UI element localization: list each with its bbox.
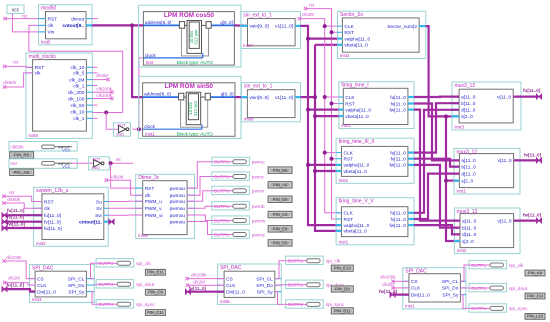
- block SPI_DAC u2: [218, 264, 282, 304]
- svg-text:fw[11..0]: fw[11..0]: [523, 213, 542, 218]
- wire Dtime pwmout1: [187, 162, 212, 188]
- svg-text:pwmou: pwmou: [170, 214, 186, 219]
- block sin_ext_to_1 upper: [241, 12, 301, 49]
- svg-text:inst5: inst5: [41, 39, 51, 44]
- svg-text:Sv: Sv: [96, 206, 102, 212]
- wire spi1 dout out: [94, 283, 96, 286]
- pin assignment box PIN_D6: [268, 196, 292, 203]
- wire fw bus to spi3 Din: [393, 294, 409, 296]
- node fw bus label spi3: [379, 289, 398, 297]
- wire Dtime pwmout2: [187, 177, 212, 196]
- wire fu_V to mux1 d: [414, 110, 459, 213]
- svg-text:valpha[11..0: valpha[11..0: [345, 107, 371, 113]
- svg-text:spi_dout: spi_dout: [136, 282, 155, 288]
- svg-text:clk_10: clk_10: [71, 65, 85, 71]
- svg-text:vbeta[11..0: vbeta[11..0: [345, 114, 369, 120]
- node rst label at svpwm: [2, 190, 15, 198]
- node clk2M label spi2: [186, 279, 205, 287]
- svg-text:rst: rst: [309, 2, 315, 7]
- wire valpha tap firing III: [308, 164, 336, 166]
- wire Dtime pwmout4: [187, 206, 212, 208]
- svg-text:pwmou: pwmou: [170, 194, 186, 199]
- svg-text:fv[11..0: fv[11..0: [391, 217, 407, 223]
- svg-text:spi_dout: spi_dout: [509, 286, 528, 292]
- svg-text:spi_clk: spi_clk: [509, 263, 524, 269]
- power symbol VCC: [7, 5, 24, 14]
- svg-text:RST: RST: [344, 217, 354, 223]
- wire vbeta vertical bus: [315, 45, 342, 231]
- svg-text:d[11..0: d[11..0: [461, 171, 476, 177]
- svg-text:mux3_12: mux3_12: [457, 209, 478, 215]
- svg-text:inst1: inst1: [339, 178, 349, 183]
- svg-text:v1[11..0]: v1[11..0]: [275, 24, 293, 30]
- wire Sv to PWM_v: [108, 207, 143, 209]
- wire clk2M to Dtime clk: [106, 180, 142, 195]
- svg-text:inst2: inst2: [340, 53, 350, 58]
- wire rst tap firing III: [332, 158, 337, 160]
- wire fu_III to mux1 b: [414, 103, 459, 152]
- svg-text:fw[11..0: fw[11..0: [389, 223, 406, 229]
- svg-text:s[2..0: s[2..0: [462, 239, 474, 245]
- svg-text:PIN_C6: PIN_C6: [273, 212, 288, 217]
- block Sector_Sx: [338, 11, 426, 58]
- svg-text:a[11..0: a[11..0: [462, 218, 477, 224]
- pin assignment box PIN_D8: [268, 240, 292, 247]
- svg-text:PIN_A6: PIN_A6: [273, 183, 288, 188]
- svg-text:SPI_Sy: SPI_Sy: [68, 289, 85, 295]
- output pin pwm3: [212, 186, 265, 194]
- block mux3_12 fu: [452, 82, 521, 130]
- svg-text:vsin[9..0]: vsin[9..0]: [250, 24, 269, 30]
- wire fu_I to mux1 a: [414, 95, 459, 98]
- svg-text:clk_1: clk_1: [73, 116, 85, 122]
- wire s tap mux2: [446, 180, 459, 182]
- svg-text:s[2..0: s[2..0: [461, 178, 473, 184]
- wire svpwm cntout stub: [108, 219, 114, 224]
- output pin pwm1: [212, 157, 265, 165]
- svg-text:fw[11..0: fw[11..0: [389, 163, 406, 169]
- svg-text:Sector_num[2: Sector_num[2: [387, 24, 417, 30]
- wire clk2M vertical net: [300, 19, 342, 213]
- svg-text:b[11..0: b[11..0: [461, 101, 476, 107]
- svg-text:PIN_E6: PIN_E6: [273, 227, 288, 232]
- block Dtime_3c: [136, 174, 195, 238]
- svg-text:clk50k: clk50k: [11, 145, 25, 150]
- wire vbeta top elbow to Sector: [315, 44, 338, 46]
- wire Sector_num bus to mux select: [426, 26, 460, 241]
- svg-text:cntout[9..: cntout[9..: [62, 23, 84, 29]
- svg-text:pwmw: pwmw: [252, 219, 266, 224]
- wire clk_10 long output: [92, 112, 122, 114]
- svg-text:inst9: inst9: [138, 233, 148, 238]
- svg-text:CLK: CLK: [345, 95, 355, 101]
- wire fu bus into svpwm: [5, 214, 43, 216]
- pin assignment box PIN_J14: [525, 293, 545, 299]
- svg-text:fu[11..0: fu[11..0: [390, 150, 406, 156]
- wire vcc to mod50 Vin: [13, 14, 46, 32]
- svg-text:inst1: inst1: [117, 132, 125, 136]
- node fv bus label spi2: [185, 286, 206, 294]
- node clk100k label spi1: [2, 255, 22, 263]
- output pin spi2 dout: [286, 280, 345, 288]
- svg-text:fw[11..0]: fw[11..0]: [7, 221, 26, 226]
- node clk2M label spi3: [382, 282, 395, 289]
- wire spi1 clk out: [91, 278, 95, 280]
- pin assignment box PIN_E6: [268, 226, 292, 233]
- wire rst to mod50 RST: [5, 18, 46, 20]
- svg-text:multi_clocks: multi_clocks: [29, 54, 57, 60]
- svg-text:inst3: inst3: [32, 297, 42, 302]
- output pin spi1 dout: [96, 280, 155, 288]
- svg-text:PIN_E13: PIN_E13: [334, 266, 351, 271]
- wire rstr to NOT2: [72, 162, 94, 164]
- svg-text:Block type: AUTO: Block type: AUTO: [177, 132, 214, 137]
- svg-text:a[11..0: a[11..0: [461, 94, 476, 100]
- svg-text:Dtime_3c: Dtime_3c: [138, 175, 160, 181]
- svg-text:firing_time_III_II: firing_time_III_II: [339, 139, 375, 145]
- svg-text:Vin: Vin: [48, 30, 55, 36]
- output pin spi2 sync: [286, 300, 345, 308]
- wire Dtime pwmout5: [187, 215, 212, 221]
- svg-text:PWM_w: PWM_w: [145, 213, 163, 219]
- junction ROM clock: [137, 127, 141, 131]
- svg-text:clk200k: clk200k: [96, 87, 112, 92]
- svg-text:fu[11..0: fu[11..0: [390, 95, 406, 101]
- wire vbeta tap firing III: [315, 170, 336, 172]
- svg-text:clk100k: clk100k: [380, 274, 396, 279]
- svg-text:fw[11..0: fw[11..0: [389, 107, 406, 113]
- svg-text:inst1: inst1: [341, 123, 351, 128]
- svg-text:Sw: Sw: [95, 213, 102, 219]
- wire mux1 output fu: [513, 88, 541, 99]
- pin assignment box PIN_E13: [331, 265, 353, 271]
- svg-text:inst3: inst3: [455, 125, 465, 130]
- svg-text:inst2: inst2: [92, 166, 100, 170]
- svg-text:CLK: CLK: [37, 283, 47, 289]
- svg-text:clk: clk: [48, 23, 54, 29]
- svg-text:s[2..0: s[2..0: [461, 114, 473, 120]
- svg-text:SPI_Do: SPI_Do: [256, 283, 273, 289]
- svg-text:fv[11..0: fv[11..0: [391, 101, 407, 107]
- svg-text:pwmou: pwmou: [170, 207, 186, 212]
- svg-text:Sector_Sx: Sector_Sx: [340, 12, 364, 18]
- wire clk100k to spi2 CS: [187, 278, 224, 280]
- svg-text:PIN_D8: PIN_D8: [273, 241, 288, 246]
- svg-text:PIN_C9: PIN_C9: [148, 290, 163, 295]
- svg-text:Block type: AUTO: Block type: AUTO: [177, 60, 214, 65]
- wire vbeta tap firing I: [315, 115, 339, 117]
- svg-text:RST: RST: [344, 157, 354, 163]
- svg-text:spi_clk: spi_clk: [326, 259, 341, 265]
- wire fw bus into svpwm: [5, 227, 43, 229]
- svg-text:clk: clk: [44, 206, 50, 212]
- pin assignment box PIN_K9: [525, 270, 545, 276]
- svg-text:b[11..0: b[11..0: [462, 225, 477, 231]
- svg-text:clk2M: clk2M: [382, 282, 394, 287]
- pin assignment box PIN_L13: [525, 314, 545, 320]
- node rst label middle: [304, 2, 315, 10]
- svg-text:sin_ext_to_1: sin_ext_to_1: [244, 84, 273, 90]
- svg-text:SPI_DAC: SPI_DAC: [405, 269, 427, 275]
- svg-text:inst8: inst8: [244, 116, 254, 121]
- wire spi3 clk out: [460, 265, 469, 281]
- pin assignment box PIN_R8: [10, 152, 34, 159]
- svg-text:inst2: inst2: [457, 248, 467, 253]
- block firing_time_III_II: [336, 138, 414, 183]
- node clk100k label spi2: [185, 273, 207, 281]
- pin assignment box PIN_A6: [268, 182, 292, 189]
- svg-text:spi_sync: spi_sync: [136, 302, 155, 308]
- svg-text:rst: rst: [13, 59, 19, 64]
- svg-text:PWM_v: PWM_v: [145, 206, 162, 212]
- svg-text:SPI_DAC: SPI_DAC: [32, 265, 54, 271]
- wire cntout bus down to sin ROM address: [132, 25, 143, 97]
- output pin spi3 clk: [469, 260, 524, 268]
- svg-text:pwmd: pwmd: [252, 232, 265, 238]
- svg-text:pwmou: pwmou: [170, 187, 186, 192]
- wire Dtime pwmout3: [187, 191, 212, 202]
- inverter NOT inst2: [89, 157, 110, 170]
- wire branch to NOT gate input: [106, 113, 118, 130]
- svg-text:fu[11..0]: fu[11..0]: [7, 208, 25, 213]
- svg-text:spi_clk: spi_clk: [136, 261, 151, 267]
- wire s tap mux1: [446, 115, 459, 117]
- svg-text:sin_ext_to_1: sin_ext_to_1: [243, 13, 272, 19]
- svg-text:clk_50: clk_50: [71, 103, 85, 109]
- svg-text:fu[11..0]: fu[11..0]: [7, 283, 25, 288]
- svg-text:CS: CS: [37, 276, 44, 282]
- svg-text:firing_time_V_V: firing_time_V_V: [339, 199, 375, 205]
- svg-text:valpha[11..0: valpha[11..0: [344, 223, 370, 229]
- output pin pwm5: [212, 216, 266, 224]
- svg-text:clk50k: clk50k: [3, 80, 17, 85]
- svg-text:PIN_K9: PIN_K9: [528, 270, 543, 275]
- wire mod50 divout stub: [92, 18, 98, 20]
- wire fw_I to mux3 a: [414, 110, 460, 221]
- block firing_time_V_VI: [336, 198, 414, 245]
- svg-text:q[9..0]: q[9..0]: [220, 20, 233, 25]
- svg-text:SPI_CL: SPI_CL: [256, 276, 273, 282]
- wire rst to multi_clocks RST: [5, 65, 33, 68]
- block multi_clocks: [26, 53, 92, 138]
- wire clk_10 to mod50 clk: [29, 25, 123, 112]
- svg-text:inst: inst: [146, 60, 154, 65]
- megafunction LPM ROM cos50 U-cos: [139, 5, 241, 67]
- svg-text:pwmou: pwmou: [170, 220, 186, 225]
- wire spi3 dout out: [460, 287, 469, 289]
- svg-text:valpha[11..0: valpha[11..0: [344, 36, 370, 42]
- wire clk_2M output with label: [92, 73, 109, 81]
- svg-text:v1[11..0]: v1[11..0]: [275, 95, 293, 101]
- svg-text:rst: rst: [22, 13, 28, 18]
- svg-text:Din[11..0: Din[11..0: [37, 290, 56, 296]
- svg-text:v[11..0: v[11..0: [498, 158, 512, 164]
- svg-text:mod50: mod50: [41, 6, 57, 12]
- svg-text:CLK: CLK: [344, 150, 354, 156]
- svg-text:rstr: rstr: [11, 161, 18, 166]
- wire clk2M tap to Sector CLK: [325, 25, 338, 27]
- wire fv_V to mux2 d: [414, 174, 459, 219]
- svg-text:inst1: inst1: [339, 239, 349, 244]
- svg-text:RST: RST: [44, 199, 54, 205]
- node rst label top-left: [3, 13, 28, 20]
- svg-text:v[11..0: v[11..0: [498, 218, 512, 224]
- wire clk100k to spi3 CS: [393, 280, 409, 282]
- wire rst tap to Sector RST: [332, 31, 338, 33]
- svg-text:valpha[11..0: valpha[11..0: [344, 163, 370, 169]
- svg-text:PIN_C11: PIN_C11: [147, 310, 164, 315]
- svg-text:CLK: CLK: [344, 24, 354, 30]
- wire Su to PWM_u: [108, 200, 143, 202]
- svg-text:vsin[9..0]: vsin[9..0]: [249, 95, 268, 101]
- wire mux2 output fv: [514, 152, 542, 163]
- wire fv_I to mux2 a: [414, 104, 459, 161]
- svg-text:clk2M: clk2M: [193, 279, 205, 284]
- svg-text:inst6: inst6: [29, 133, 39, 138]
- wire clk50k to multi_clocks clk: [5, 73, 33, 87]
- wire clk2M tap firing I: [325, 96, 339, 98]
- svg-text:inst1: inst1: [145, 132, 155, 137]
- svg-text:cntout[11.: cntout[11.: [79, 220, 102, 226]
- output pin spi3 sync: [469, 304, 528, 312]
- svg-text:RST: RST: [145, 186, 155, 192]
- svg-text:CLK: CLK: [411, 286, 421, 292]
- svg-text:PIN_R8: PIN_R8: [14, 153, 29, 158]
- svg-text:clk_10: clk_10: [71, 110, 85, 116]
- pin assignment box PIN_D5: [268, 167, 292, 174]
- svg-text:Din[11..0: Din[11..0: [411, 292, 430, 298]
- node clk2M label middle: [298, 12, 314, 20]
- wire clk_200 output with label: [92, 87, 113, 94]
- svg-text:PIN_L13: PIN_L13: [527, 314, 544, 319]
- svg-text:PIN_J15: PIN_J15: [14, 170, 31, 175]
- svg-text:vbeta[11..0: vbeta[11..0: [344, 229, 368, 235]
- svg-text:address[8..0]: address[8..0]: [145, 20, 172, 25]
- svg-text:SPI_CL: SPI_CL: [68, 276, 85, 282]
- wire spi2 dout out: [275, 284, 286, 287]
- svg-text:vbeta[11..0: vbeta[11..0: [344, 169, 368, 175]
- svg-text:512 wor: 512 wor: [193, 100, 198, 116]
- junction rst to Dtime RST: [109, 161, 113, 165]
- svg-text:VCC: VCC: [62, 147, 71, 152]
- svg-text:vcc: vcc: [12, 8, 20, 14]
- svg-text:clk_100: clk_100: [68, 96, 85, 102]
- svg-text:pwmou: pwmou: [170, 200, 186, 205]
- svg-text:CS: CS: [226, 276, 233, 282]
- node clk50k label left: [3, 80, 17, 89]
- node clk2M label spi1: [3, 275, 20, 284]
- block SPI_DAC u3: [403, 268, 466, 309]
- block SPI_DAC u1: [30, 265, 95, 303]
- wire spi2 clk out: [275, 261, 286, 279]
- svg-text:512 wor: 512 wor: [194, 29, 199, 45]
- svg-text:inst2: inst2: [36, 241, 46, 246]
- wire rst to svpwm RST: [4, 196, 42, 201]
- node fw bus label at svpwm: [2, 221, 26, 230]
- wire v1 lower to vbeta vertical bus: [301, 96, 316, 98]
- svg-text:clk: clk: [145, 193, 151, 199]
- node clk50k label at svpwm: [2, 197, 21, 205]
- junction cntout: [130, 23, 134, 27]
- svg-text:svpwm_12b_u: svpwm_12b_u: [36, 188, 68, 194]
- pin assignment box PIN_E11: [145, 269, 165, 275]
- svg-text:vbeta[11..0: vbeta[11..0: [344, 43, 368, 49]
- wire rst down to Dtime RST: [111, 163, 143, 188]
- node fu bus label at svpwm: [2, 208, 25, 218]
- wire cntout bus mod50 to ROM address: [92, 24, 143, 26]
- wire rst vertical net: [306, 9, 342, 219]
- svg-text:pwmv: pwmv: [252, 190, 265, 195]
- svg-text:CLK: CLK: [344, 211, 354, 217]
- svg-text:b[11..0: b[11..0: [461, 164, 476, 170]
- wire spi1 sync out: [92, 292, 96, 305]
- svg-text:v[11..0: v[11..0: [497, 94, 511, 100]
- svg-text:clk50k: clk50k: [7, 197, 21, 202]
- wire sin q bus to sin_ext2: [235, 96, 247, 98]
- block firing_time_I: [339, 82, 414, 129]
- svg-text:CLK: CLK: [226, 283, 236, 289]
- node rst label at multi_clocks: [3, 59, 19, 68]
- svg-text:fv[11..0]: fv[11..0]: [7, 215, 25, 220]
- pin assignment box PIN_J15: [10, 169, 34, 176]
- wire short stubs unused clocks: [92, 67, 97, 118]
- inverter NOT inst1: [114, 123, 131, 137]
- svg-text:PIN_D9: PIN_D9: [335, 287, 350, 292]
- block mux3_12 fv: [454, 148, 520, 194]
- svg-text:NOT: NOT: [93, 157, 102, 161]
- svg-text:pwmc: pwmc: [252, 175, 265, 180]
- pin assignment box PIN_C6: [268, 211, 292, 218]
- wire clk50k to svpwm clk: [4, 203, 42, 208]
- svg-text:clk2M: clk2M: [302, 12, 314, 17]
- svg-text:VCC: VCC: [62, 164, 71, 169]
- svg-text:clk100k: clk100k: [96, 93, 112, 98]
- svg-text:fu[11..0]: fu[11..0]: [523, 88, 541, 93]
- svg-text:rst: rst: [9, 190, 15, 195]
- svg-text:fu[11..0]: fu[11..0]: [44, 213, 61, 219]
- svg-text:pwmb: pwmb: [252, 204, 265, 210]
- svg-text:firing_time_I: firing_time_I: [341, 83, 368, 89]
- svg-text:PIN_D6: PIN_D6: [273, 197, 288, 202]
- svg-text:inst1: inst1: [405, 304, 415, 309]
- svg-text:a[11..0: a[11..0: [461, 158, 476, 164]
- wire cos q bus to sin_ext1: [234, 24, 247, 27]
- svg-text:SPI_DAC: SPI_DAC: [220, 265, 242, 271]
- svg-text:RST: RST: [35, 65, 45, 71]
- node clk2M label at Dtime: [105, 174, 124, 182]
- output pin pwm4: [212, 202, 265, 210]
- svg-text:fv[11..0]: fv[11..0]: [44, 220, 61, 226]
- node fv bus label at svpwm: [2, 215, 25, 225]
- svg-text:clk_1: clk_1: [73, 83, 85, 89]
- svg-text:address[8..0]: address[8..0]: [144, 92, 171, 97]
- wire fw_V to mux3 d: [414, 225, 460, 234]
- svg-text:Su: Su: [96, 199, 102, 205]
- svg-text:clk_200: clk_200: [68, 90, 85, 96]
- svg-text:CS: CS: [411, 279, 418, 285]
- wire up to cos ROM clock: [139, 58, 144, 129]
- wire clk2M tap firing III: [325, 152, 336, 154]
- svg-text:SPI_CL: SPI_CL: [442, 279, 459, 285]
- svg-text:NOT: NOT: [118, 123, 127, 127]
- svg-text:d[11..0: d[11..0: [462, 232, 477, 238]
- wire clk2M to spi2 CLK: [188, 284, 225, 286]
- pin assignment box PIN_C11: [145, 310, 165, 316]
- wire spi3 sync out: [460, 295, 469, 309]
- output pin spi1 sync: [96, 300, 155, 308]
- wire Dtime pwmout6: [187, 222, 212, 235]
- svg-text:PWM_u: PWM_u: [145, 199, 162, 205]
